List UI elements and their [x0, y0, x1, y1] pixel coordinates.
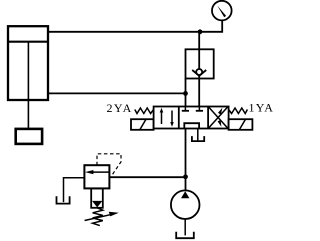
svg-text:2YA: 2YA [107, 101, 133, 115]
svg-text:1YA: 1YA [249, 101, 275, 115]
